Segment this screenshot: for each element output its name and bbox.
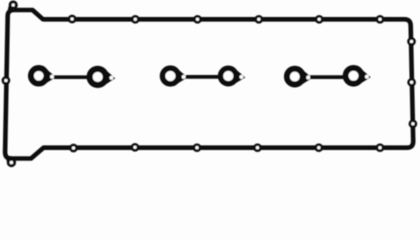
pair 1 left ring tab — [46, 69, 56, 83]
pair 2 left ring tab — [178, 69, 188, 83]
pair 2 right ring — [221, 68, 237, 84]
spark plug gasket pair 1 connecting bar — [54, 75, 90, 79]
spark plug gasket pair 2 connecting bar — [186, 75, 220, 79]
pair 3 left ring — [287, 69, 303, 85]
pair 3 right ring — [346, 68, 362, 84]
bolt hole top 6 — [377, 16, 383, 22]
pair 2 left ring — [163, 68, 179, 84]
bolt hole bottom 1 — [71, 145, 77, 151]
bolt hole right 2 — [409, 79, 415, 85]
pair 2 right ring tab — [235, 70, 245, 84]
pair 3 right tab hole — [365, 75, 369, 79]
pair 2 right tab hole — [239, 75, 243, 79]
bolt hole bottom 5 — [316, 145, 322, 151]
pair 1 left ring — [31, 68, 47, 84]
pair 3 right ring tab — [361, 69, 371, 83]
bottom-left corner fillet blob — [6, 156, 13, 163]
bolt hole left — [3, 78, 9, 84]
bolt hole bottom 4 — [255, 145, 261, 151]
spark plug gasket pair 3 connecting bar — [310, 75, 345, 79]
bolt hole bottom 6 — [377, 145, 383, 151]
bolt hole top 4 — [256, 16, 262, 22]
pair 1 left tab hole — [50, 75, 54, 79]
bolt hole top 2 — [132, 16, 138, 22]
pair 3 left tab hole — [306, 76, 310, 80]
bolt hole top 1 — [69, 16, 75, 22]
bolt hole bottom 2 — [132, 144, 138, 150]
bolt hole top 3 — [195, 16, 201, 22]
bolt hole top-left corner — [10, 2, 16, 8]
bolt hole right 3 — [410, 121, 416, 127]
valve cover gasket set drawing — [0, 0, 420, 169]
bolt hole top 5 — [316, 16, 322, 22]
pair 3 left ring tab — [302, 70, 312, 84]
pair 1 right ring tab — [105, 70, 115, 85]
bolt hole bottom-left corner — [8, 159, 14, 165]
bolt hole bottom 3 — [194, 145, 200, 151]
pair 2 left tab hole — [182, 75, 186, 79]
pair 1 right ring — [90, 69, 106, 85]
pair 1 right tab hole — [109, 76, 113, 80]
top-left corner fillet blob — [8, 5, 15, 12]
gasket outline — [5, 10, 413, 159]
bolt hole right 1 — [409, 39, 415, 45]
